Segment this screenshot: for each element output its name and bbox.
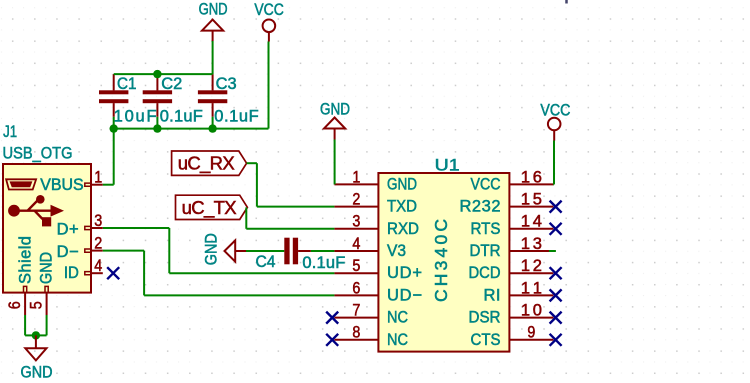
svg-text:5: 5: [352, 257, 360, 275]
svg-text:DCD: DCD: [469, 264, 501, 282]
svg-text:NC: NC: [387, 331, 408, 349]
svg-text:0.1uF: 0.1uF: [160, 107, 203, 125]
svg-text:GND: GND: [387, 175, 417, 193]
svg-text:VCC: VCC: [471, 175, 501, 193]
svg-text:GND: GND: [21, 364, 53, 382]
svg-text:DTR: DTR: [470, 242, 501, 260]
svg-text:9: 9: [527, 324, 535, 342]
svg-text:2: 2: [94, 235, 102, 253]
svg-text:uC_RX: uC_RX: [178, 153, 235, 175]
svg-text:8: 8: [352, 324, 360, 342]
svg-text:VCC: VCC: [540, 101, 570, 119]
svg-text:NC: NC: [387, 309, 408, 327]
svg-text:UD+: UD+: [387, 264, 422, 282]
svg-text:VBUS: VBUS: [40, 176, 83, 194]
svg-text:C1: C1: [117, 75, 137, 93]
svg-text:4: 4: [94, 257, 102, 275]
svg-text:D−: D−: [57, 243, 79, 261]
svg-text:Shield: Shield: [17, 236, 35, 284]
svg-text:V3: V3: [387, 242, 406, 260]
svg-text:3: 3: [94, 212, 102, 230]
svg-text:7: 7: [352, 302, 360, 320]
svg-text:6: 6: [352, 279, 360, 297]
svg-text:TXD: TXD: [387, 198, 417, 216]
svg-text:R232: R232: [460, 198, 501, 216]
svg-text:RTS: RTS: [471, 220, 501, 238]
svg-text:USB_OTG: USB_OTG: [3, 144, 73, 162]
svg-text:10uF: 10uF: [114, 107, 157, 125]
svg-text:3: 3: [352, 213, 360, 231]
svg-text:DSR: DSR: [469, 309, 501, 327]
svg-text:0.1uF: 0.1uF: [302, 254, 345, 272]
svg-text:2: 2: [352, 191, 360, 209]
svg-text:GND: GND: [203, 233, 221, 265]
svg-text:UD−: UD−: [387, 286, 422, 304]
svg-text:C2: C2: [161, 75, 182, 93]
svg-text:C3: C3: [216, 75, 237, 93]
svg-text:C4: C4: [256, 253, 276, 271]
svg-text:CTS: CTS: [471, 331, 501, 349]
svg-text:ID: ID: [64, 264, 79, 282]
svg-text:D+: D+: [57, 221, 79, 239]
svg-text:uC_TX: uC_TX: [182, 197, 237, 219]
svg-text:6: 6: [6, 301, 24, 309]
svg-text:5: 5: [28, 301, 46, 309]
svg-text:1: 1: [94, 169, 102, 187]
svg-text:J1: J1: [3, 123, 17, 141]
svg-text:RI: RI: [484, 286, 501, 304]
svg-text:RXD: RXD: [387, 220, 419, 238]
svg-text:U1: U1: [435, 156, 460, 174]
svg-text:4: 4: [352, 235, 360, 253]
svg-text:GND: GND: [320, 100, 350, 118]
svg-text:GND: GND: [38, 252, 56, 284]
svg-text:1: 1: [352, 168, 360, 186]
svg-text:VCC: VCC: [254, 1, 284, 19]
svg-text:0.1uF: 0.1uF: [214, 107, 259, 125]
svg-text:GND: GND: [199, 0, 228, 18]
